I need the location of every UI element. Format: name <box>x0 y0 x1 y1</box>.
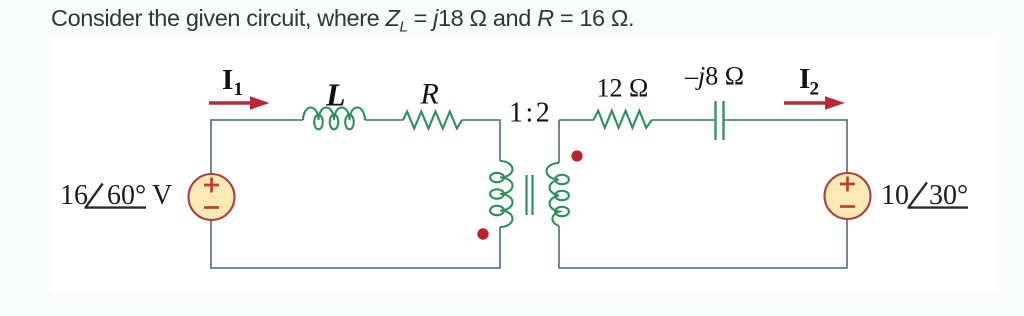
label I2 <box>799 63 819 100</box>
current arrow I2 <box>784 96 845 110</box>
svg-text:L: L <box>325 77 346 113</box>
svg-text:R: R <box>420 78 439 111</box>
transformer dot primary <box>477 228 488 239</box>
svg-text:1: 1 <box>234 79 244 100</box>
resistor R <box>403 112 462 129</box>
voltage source VS2 10&#8736;30&#176; <box>825 173 871 219</box>
voltage source VS1 16&#8736;60&#176; V <box>189 174 235 220</box>
label I1 <box>222 64 243 100</box>
title text <box>51 5 634 36</box>
transformer dot secondary <box>571 150 582 161</box>
capacitor -j8 ohm <box>716 101 724 140</box>
transformer T1 secondary coil <box>546 163 568 226</box>
svg-text:I: I <box>222 64 233 96</box>
svg-text:30°: 30° <box>929 180 968 211</box>
svg-text:2: 2 <box>810 79 820 100</box>
svg-text:60°: 60° <box>107 180 146 211</box>
wire: right loop outline <box>559 120 847 268</box>
white panel <box>50 36 999 294</box>
label 10&#8736;30&#176; <box>881 180 968 211</box>
resistor 12 ohm <box>594 111 652 128</box>
inductor L <box>303 107 365 129</box>
svg-text:10: 10 <box>881 180 909 211</box>
svg-text:–j8 Ω: –j8 Ω <box>684 62 744 91</box>
svg-text:16: 16 <box>60 180 88 211</box>
current arrow I1 <box>209 96 270 110</box>
svg-text:1:2: 1:2 <box>509 98 552 129</box>
wire: left loop outline <box>211 120 500 268</box>
transformer T1 core <box>527 175 533 215</box>
transformer T1 primary coil <box>490 161 512 227</box>
label 16&#8736;60&#176; V <box>60 180 172 211</box>
svg-text:12 Ω: 12 Ω <box>597 74 649 103</box>
svg-text:V: V <box>152 180 172 211</box>
